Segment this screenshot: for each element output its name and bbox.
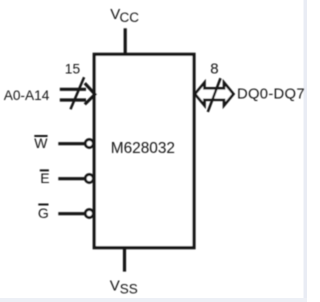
svg-text:8: 8 xyxy=(210,61,218,78)
inversion bubble on E-bar pin xyxy=(85,175,93,183)
data bus DQ0-DQ7 bidirectional double arrow at U1 right xyxy=(195,83,234,106)
wire VCC supply to U1 top pin xyxy=(124,28,127,54)
svg-text:E: E xyxy=(40,170,49,186)
overbar of W label xyxy=(34,135,47,137)
wire W-bar input xyxy=(58,142,84,145)
svg-text:A0-A14: A0-A14 xyxy=(4,88,50,103)
overbar of G label xyxy=(38,204,48,206)
svg-text:CC: CC xyxy=(120,10,140,25)
svg-text:SS: SS xyxy=(120,282,138,297)
overbar of E label xyxy=(40,169,49,171)
wire U1 bottom pin to VSS xyxy=(123,248,126,272)
bus width slash marker (8) xyxy=(208,78,221,112)
IC U1 body M628032 xyxy=(94,54,194,247)
svg-text:DQ0-DQ7: DQ0-DQ7 xyxy=(237,86,305,102)
svg-text:M628032: M628032 xyxy=(111,140,175,157)
inversion bubble on G-bar pin xyxy=(85,210,93,218)
svg-text:W: W xyxy=(34,135,48,151)
power net label VSS xyxy=(110,278,138,297)
svg-text:15: 15 xyxy=(65,62,81,77)
address bus A0-A14 wires and arrowhead into U1 xyxy=(60,83,95,104)
power net label VCC xyxy=(110,6,139,25)
bus width slash marker (15) xyxy=(71,77,85,109)
svg-text:G: G xyxy=(38,205,49,221)
inversion bubble on W-bar pin xyxy=(85,140,93,148)
wire E-bar input xyxy=(58,177,84,180)
svg-text:V: V xyxy=(110,278,120,295)
wire G-bar input xyxy=(58,212,84,215)
